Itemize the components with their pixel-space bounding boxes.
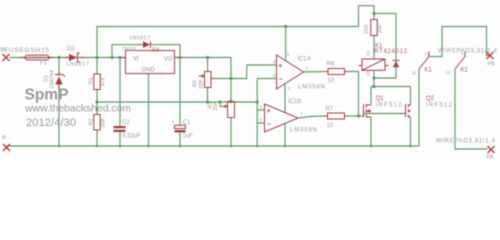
svg-text:220: 220 (364, 25, 370, 34)
svg-text:SpmP: SpmP (25, 87, 69, 104)
svg-text:0.33uF: 0.33uF (122, 134, 141, 140)
svg-text:R1: R1 (89, 77, 95, 84)
svg-text:12: 12 (425, 51, 431, 56)
svg-text:WIREPAD3,81/1,4: WIREPAD3,81/1,4 (438, 49, 498, 55)
svg-text:1N5817: 1N5817 (129, 36, 150, 42)
svg-text:1N5817: 1N5817 (66, 62, 89, 68)
svg-text:VI: VI (133, 57, 139, 63)
svg-text:47K: 47K (101, 76, 107, 86)
svg-text:10: 10 (328, 78, 335, 84)
svg-text:R6: R6 (327, 62, 335, 68)
svg-text:10K: 10K (199, 79, 205, 89)
svg-text:RT424012: RT424012 (374, 49, 408, 55)
svg-text:20K: 20K (101, 117, 107, 127)
svg-text:GND: GND (142, 68, 156, 74)
svg-text:D3: D3 (152, 48, 159, 54)
svg-text:10: 10 (327, 123, 334, 129)
svg-text:F1: F1 (40, 61, 48, 67)
svg-text:IC1B: IC1B (288, 99, 301, 105)
svg-text:2012/4/30: 2012/4/30 (26, 117, 76, 129)
svg-text:LM358N: LM358N (298, 85, 325, 91)
svg-text:1uF: 1uF (183, 133, 194, 139)
svg-text:www.thebackshed.com: www.thebackshed.com (24, 103, 131, 115)
svg-text:Q2: Q2 (426, 96, 435, 102)
svg-text:A2: A2 (366, 70, 371, 76)
svg-text:IRF512: IRF512 (426, 103, 453, 109)
svg-text:FUSEGSH15: FUSEGSH15 (4, 47, 49, 54)
svg-text:K1: K1 (461, 68, 469, 74)
svg-text:−: − (267, 121, 271, 128)
svg-text:C1: C1 (183, 120, 191, 126)
svg-text:R2: R2 (89, 118, 95, 125)
svg-text:B-: B- (2, 135, 8, 141)
svg-text:Q1: Q1 (376, 96, 385, 102)
svg-text:PB: PB (488, 62, 496, 68)
svg-text:PA: PA (487, 155, 494, 161)
svg-text:LM358N: LM358N (290, 128, 317, 134)
svg-text:IC1A: IC1A (298, 57, 311, 63)
svg-text:2W: 2W (378, 24, 384, 33)
svg-text:K1: K1 (425, 68, 433, 74)
svg-text:D2: D2 (67, 47, 75, 53)
svg-text:VO: VO (164, 57, 173, 63)
svg-text:+: + (278, 63, 282, 70)
svg-text:WIREPAD3,81/1,4: WIREPAD3,81/1,4 (436, 139, 496, 145)
svg-text:25K: 25K (213, 101, 219, 111)
svg-text:7805L: 7805L (122, 47, 137, 53)
svg-text:+: + (267, 108, 271, 115)
svg-text:IRF512: IRF512 (376, 103, 403, 109)
svg-text:11: 11 (446, 70, 451, 75)
svg-text:−: − (279, 77, 283, 84)
svg-text:11: 11 (412, 71, 417, 76)
svg-text:R7: R7 (326, 107, 334, 113)
svg-text:A1: A1 (366, 50, 371, 56)
svg-text:C2: C2 (122, 120, 130, 126)
svg-text:+: + (172, 120, 175, 126)
